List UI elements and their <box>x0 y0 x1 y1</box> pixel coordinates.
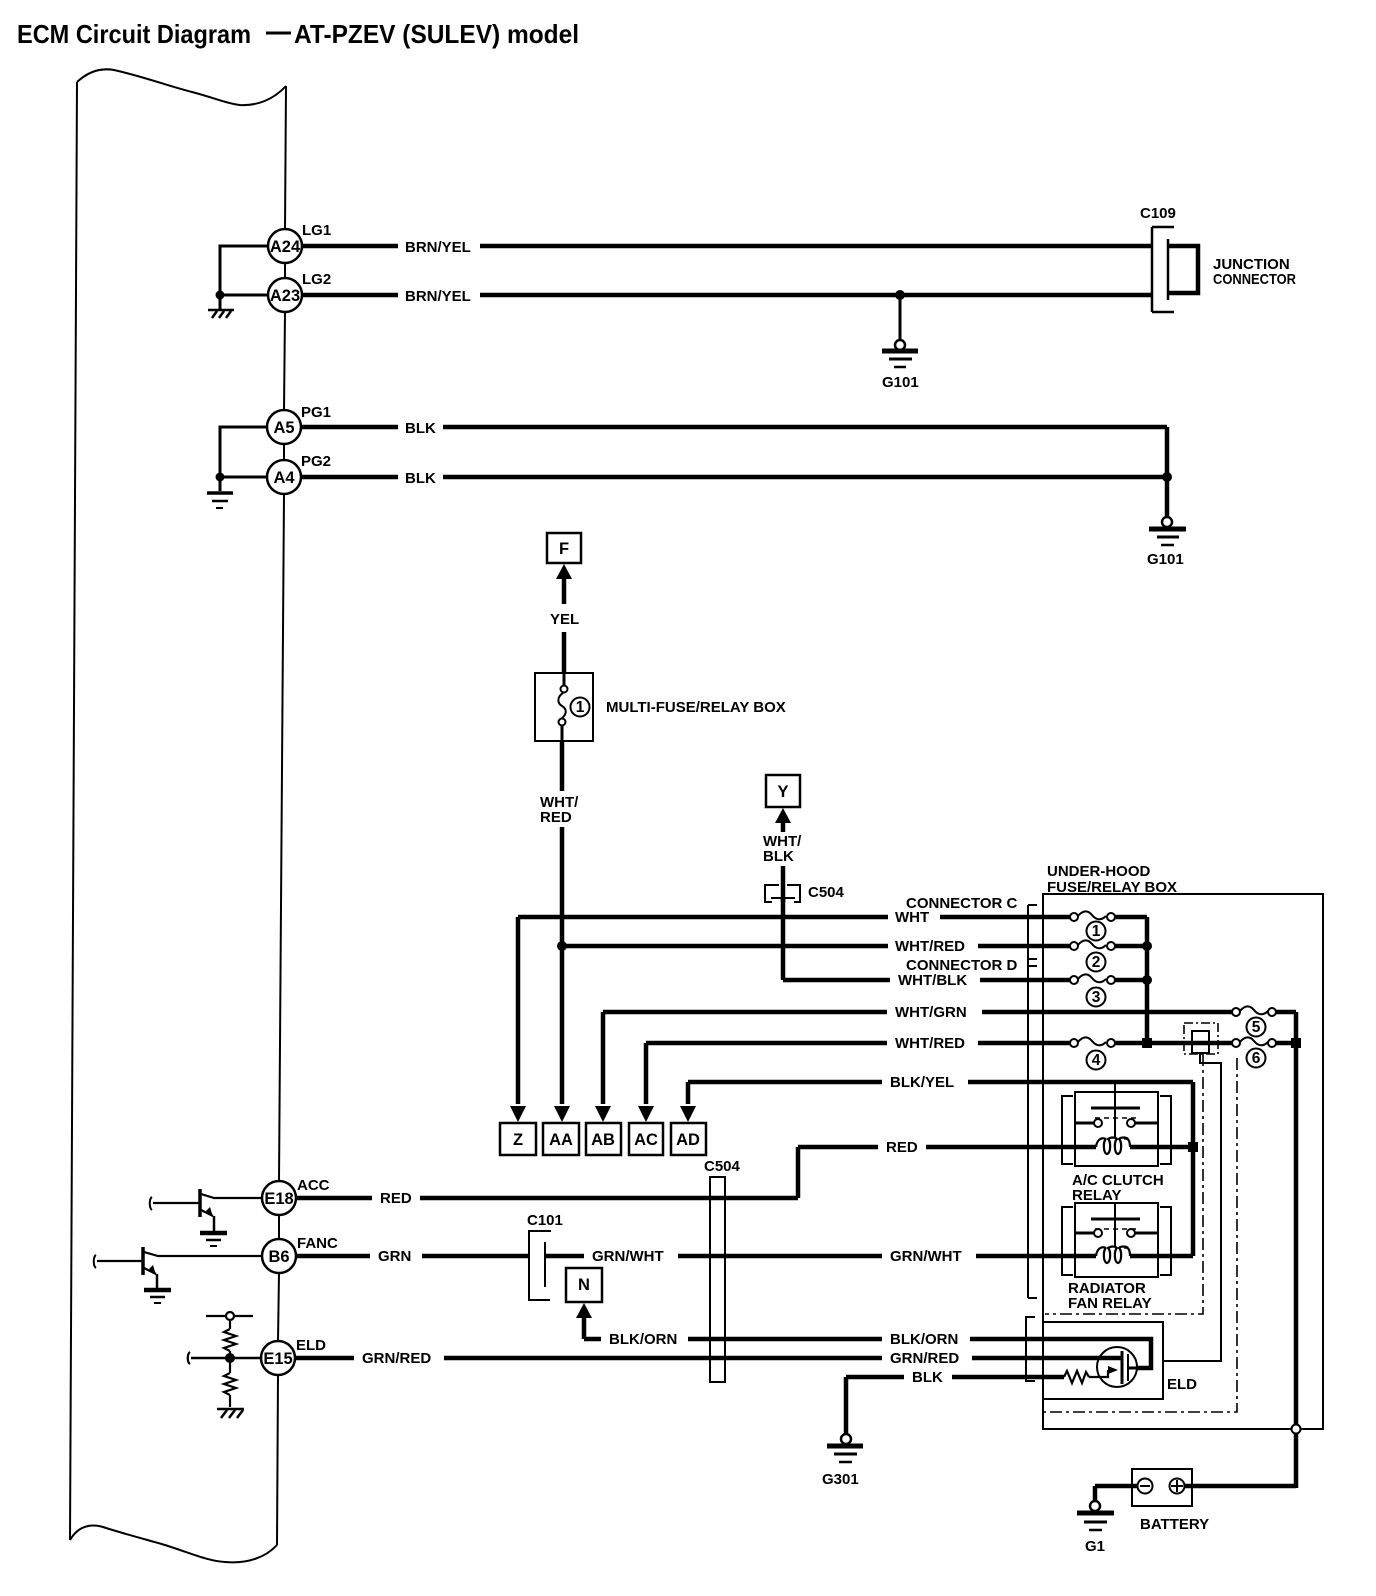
ground G101 (right) <box>1149 517 1186 545</box>
svg-text:BLK: BLK <box>405 420 436 437</box>
wire WHT drop to Z <box>516 917 521 1104</box>
svg-text:RED: RED <box>540 809 572 826</box>
connector Y box <box>766 775 800 807</box>
A/C relay coil <box>1096 1138 1130 1155</box>
svg-text:AA: AA <box>549 1131 573 1149</box>
wire BLK/YEL drop to AD <box>686 1082 691 1104</box>
svg-text:ELD: ELD <box>296 1337 326 1354</box>
svg-text:5: 5 <box>1252 1019 1261 1036</box>
dash-dot ELD module boundary <box>1044 1058 1237 1412</box>
svg-text:BLK/ORN: BLK/ORN <box>609 1331 677 1348</box>
svg-text:WHT/RED: WHT/RED <box>895 938 965 955</box>
fuse 5 <box>1232 1006 1276 1016</box>
node bus-fuse2 <box>1142 941 1152 951</box>
wire YEL below label <box>562 632 567 673</box>
svg-text:G101: G101 <box>882 374 919 391</box>
ground G1 <box>1077 1501 1114 1530</box>
connector Z box <box>500 1123 536 1155</box>
ground (chassis) below divider <box>217 1409 244 1418</box>
fuse 2 <box>1070 940 1115 950</box>
ELD box <box>1043 1322 1163 1399</box>
svg-text:BATTERY: BATTERY <box>1140 1516 1209 1533</box>
svg-text:UNDER-HOOD: UNDER-HOOD <box>1047 863 1150 880</box>
node junction at A23 jumper <box>216 291 225 300</box>
wire row BLK/ORN <box>584 1337 1043 1342</box>
ground at A5/A4 <box>207 493 233 508</box>
wire GRN/WHT coil row right segment <box>1130 1254 1193 1259</box>
svg-text:E15: E15 <box>263 1350 292 1368</box>
svg-text:FAN RELAY: FAN RELAY <box>1068 1295 1152 1312</box>
wire row WHT/RED <box>562 944 1070 949</box>
connector AB box <box>586 1123 621 1155</box>
svg-text:AT-PZEV (SULEV) model: AT-PZEV (SULEV) model <box>294 19 579 49</box>
fuse 6 <box>1232 1037 1276 1047</box>
transistor Q1 at E18 <box>150 1189 262 1231</box>
svg-text:A5: A5 <box>273 419 294 437</box>
ground at Q2 <box>144 1290 171 1303</box>
wire WHT/BLK to C504 <box>781 866 786 902</box>
svg-text:GRN/RED: GRN/RED <box>362 1350 431 1367</box>
svg-text:GRN/WHT: GRN/WHT <box>592 1248 664 1265</box>
control device square on fuse6 row <box>1192 1031 1209 1053</box>
wire BLK/YEL vertical to relay bus <box>1191 1082 1196 1256</box>
pin A24 (LG1) <box>268 229 302 263</box>
ground (chassis) at A24/A23 <box>208 310 234 318</box>
svg-text:Z: Z <box>513 1131 523 1149</box>
svg-text:1: 1 <box>576 699 585 716</box>
dash-dot box around control square <box>1184 1023 1218 1054</box>
svg-text:1: 1 <box>1092 923 1101 940</box>
svg-text:BLK: BLK <box>405 470 436 487</box>
svg-text:2: 2 <box>1092 954 1101 971</box>
wire row WHT/GRN <box>603 1010 1232 1015</box>
pin B6 (FANC) <box>262 1239 296 1273</box>
svg-text:AB: AB <box>591 1131 615 1149</box>
pin A5 (PG1) <box>267 410 301 444</box>
svg-text:Y: Y <box>777 783 788 801</box>
under-hood fuse/relay box <box>1043 894 1323 1429</box>
svg-text:YEL: YEL <box>550 611 579 628</box>
connector C504 (in-line) <box>765 885 800 902</box>
node G101 junction on A23 wire <box>895 290 905 300</box>
svg-text:AD: AD <box>676 1131 700 1149</box>
wire arrow into Y <box>775 808 791 823</box>
transistor (ELD MOSFET) <box>1097 1347 1137 1387</box>
svg-text:BLK: BLK <box>763 848 794 865</box>
wire row BLK/YEL <box>688 1080 1193 1085</box>
wire GRN/WHT mid segment <box>545 1254 1096 1259</box>
supply terminal at E15 divider <box>206 1312 253 1320</box>
wire WHT/GRN drop to AB <box>601 1012 606 1104</box>
wire from C504 down to WHT/BLK row <box>781 898 786 980</box>
wire drop to G101 <box>899 295 902 341</box>
multi-fuse/relay box <box>535 673 593 741</box>
node A/C coil to bus junction <box>1188 1142 1198 1152</box>
svg-text:PG1: PG1 <box>301 404 331 421</box>
pin A23 (LG2) <box>268 278 302 312</box>
connector AC box <box>629 1123 663 1155</box>
wire battery bus lower <box>1292 1425 1301 1434</box>
svg-text:BLK/YEL: BLK/YEL <box>890 1074 954 1091</box>
wire junction to E15 <box>188 1352 261 1364</box>
node bus-fuse4 <box>1142 1038 1152 1048</box>
svg-text:FUSE/RELAY BOX: FUSE/RELAY BOX <box>1047 879 1177 896</box>
wire WHT/RED from multi-fuse box down <box>560 741 565 791</box>
svg-text:FANC: FANC <box>297 1235 338 1252</box>
svg-text:A23: A23 <box>270 287 300 305</box>
svg-text:E18: E18 <box>264 1190 293 1208</box>
wire bus fuses 1-4 <box>1145 917 1150 1043</box>
connector N box <box>566 1268 602 1302</box>
wire supply to resistor <box>229 1320 231 1329</box>
svg-text:CONNECTOR: CONNECTOR <box>1213 271 1296 288</box>
wire resistor to chassis ground <box>229 1395 231 1407</box>
wire battery bus vertical <box>1294 1012 1299 1425</box>
fuse 4 <box>1070 1037 1115 1047</box>
svg-text:WHT/BLK: WHT/BLK <box>898 972 967 989</box>
wire control square to ELD (thin) <box>1163 1053 1221 1361</box>
wire row WHT <box>518 915 1070 920</box>
node junction WHT/RED row <box>557 941 567 951</box>
svg-text:A4: A4 <box>273 469 295 487</box>
wire gate link <box>1089 1370 1108 1377</box>
ground at Q1 <box>200 1233 227 1246</box>
svg-text:A24: A24 <box>270 238 301 256</box>
wire battery negative to G1 <box>1095 1484 1138 1489</box>
connector F box <box>547 533 581 563</box>
connector AA box <box>543 1123 579 1155</box>
wire BLK/ORN inside ELD <box>1043 1339 1151 1368</box>
svg-text:AC: AC <box>634 1131 658 1149</box>
svg-text:ELD: ELD <box>1167 1376 1197 1393</box>
node junction at A4 jumper <box>216 473 225 482</box>
svg-text:G301: G301 <box>822 1471 859 1488</box>
svg-text:G101: G101 <box>1147 551 1184 568</box>
wire RED coil row inside box <box>1043 1145 1096 1150</box>
svg-text:B6: B6 <box>268 1248 289 1266</box>
wire BLK drop to G301 <box>844 1377 849 1434</box>
wire right corner PG1/PG2 <box>1165 427 1170 518</box>
wire A24 BRN/YEL <box>302 244 1152 249</box>
wire row WHT/RED (fuse 4) <box>646 1041 1296 1046</box>
svg-text:C504: C504 <box>808 884 845 901</box>
ground G301 <box>827 1434 863 1462</box>
pin A4 (PG2) <box>267 460 301 494</box>
svg-text:BLK: BLK <box>912 1369 943 1386</box>
svg-text:3: 3 <box>1092 989 1101 1006</box>
svg-text:ECM Circuit Diagram: ECM Circuit Diagram <box>17 19 251 49</box>
transistor Q2 at B6 <box>94 1247 262 1288</box>
svg-text:C504: C504 <box>704 1158 741 1175</box>
ground G101 (top) <box>882 340 918 367</box>
wire RED riser <box>796 1147 801 1198</box>
svg-text:RED: RED <box>886 1139 918 1156</box>
svg-text:BLK/ORN: BLK/ORN <box>890 1331 958 1348</box>
dash-dot relay module boundary <box>1045 1054 1203 1314</box>
wire resistor to junction <box>229 1351 231 1373</box>
svg-text:BRN/YEL: BRN/YEL <box>405 288 471 305</box>
svg-text:RED: RED <box>380 1190 412 1207</box>
svg-text:RELAY: RELAY <box>1072 1187 1121 1204</box>
svg-text:MULTI-FUSE/RELAY BOX: MULTI-FUSE/RELAY BOX <box>606 699 786 716</box>
svg-text:N: N <box>578 1276 590 1294</box>
svg-text:G1: G1 <box>1085 1538 1105 1555</box>
svg-text:4: 4 <box>1092 1052 1101 1069</box>
wire arrow into N <box>576 1303 592 1318</box>
svg-text:PG2: PG2 <box>301 453 331 470</box>
wire GRN row from B6 <box>296 1254 529 1259</box>
wire ECM-side jumper A5/A4 to ground <box>220 427 267 491</box>
wire arrow into F <box>556 564 572 579</box>
connector C504 (tall in-line) <box>710 1177 725 1382</box>
wire fuse5 to battery bus <box>1276 1010 1296 1015</box>
svg-text:F: F <box>559 540 569 558</box>
fuse 1 (multi-fuse box breaker) <box>558 673 567 741</box>
fuse 3 <box>1070 974 1115 984</box>
wire row WHT/BLK <box>783 978 1070 983</box>
wire A4 BLK <box>301 475 1167 480</box>
wire RED row from E18 <box>296 1196 798 1201</box>
wire A23 BRN/YEL <box>302 293 1152 298</box>
svg-text:CONNECTOR C: CONNECTOR C <box>906 895 1018 912</box>
fuse 1 <box>1070 911 1115 921</box>
node junction PG2 <box>1162 472 1172 482</box>
connector C109 <box>1152 227 1174 312</box>
svg-text:LG2: LG2 <box>302 271 331 288</box>
svg-text:WHT/GRN: WHT/GRN <box>895 1004 967 1021</box>
ELD connector bracket <box>1026 1317 1035 1381</box>
svg-text:GRN/RED: GRN/RED <box>890 1350 959 1367</box>
node fuse6-bus junction <box>1291 1038 1301 1048</box>
node divider junction <box>225 1353 235 1363</box>
wire A5 BLK <box>301 425 1167 430</box>
connector C/D bracket at fuse box <box>1028 905 1037 1298</box>
resistor (upper, E15 divider) <box>224 1329 236 1351</box>
wire WHT/RED drop to AC <box>644 1043 649 1104</box>
ECM body outline (torn-edge box) <box>70 69 286 1562</box>
connector AD box <box>671 1123 706 1155</box>
svg-text:GRN: GRN <box>378 1248 411 1265</box>
svg-text:GRN/WHT: GRN/WHT <box>890 1248 962 1265</box>
svg-text:C109: C109 <box>1140 205 1176 222</box>
svg-text:BRN/YEL: BRN/YEL <box>405 239 471 256</box>
connector C101 <box>529 1231 551 1300</box>
wire ECM-side jumper A24/A23 to ground <box>220 246 268 309</box>
pin E15 (ELD) <box>261 1341 295 1375</box>
wire row GRN/RED <box>295 1356 1121 1361</box>
wire row BLK to ELD <box>846 1375 1064 1380</box>
svg-text:LG1: LG1 <box>302 222 331 239</box>
svg-text:ACC: ACC <box>297 1177 330 1194</box>
svg-text:C101: C101 <box>527 1212 563 1229</box>
resistor (lower, E15 divider) <box>224 1373 236 1395</box>
arrows into Z AA AB AC AD <box>510 1106 526 1122</box>
svg-text:6: 6 <box>1252 1050 1261 1067</box>
radiator relay coil <box>1096 1247 1130 1264</box>
A/C clutch relay <box>1062 1082 1171 1166</box>
pin E18 (ACC) <box>262 1181 296 1215</box>
svg-text:CONNECTOR D: CONNECTOR D <box>906 957 1018 974</box>
wire RED upper segment <box>798 1145 1043 1150</box>
svg-text:WHT/RED: WHT/RED <box>895 1035 965 1052</box>
battery <box>1132 1469 1192 1506</box>
resistor in ELD <box>952 1376 1064 1378</box>
radiator fan relay <box>1062 1203 1171 1277</box>
node bus-fuse3 <box>1142 975 1152 985</box>
wire fuse1 to bus <box>1115 915 1147 920</box>
